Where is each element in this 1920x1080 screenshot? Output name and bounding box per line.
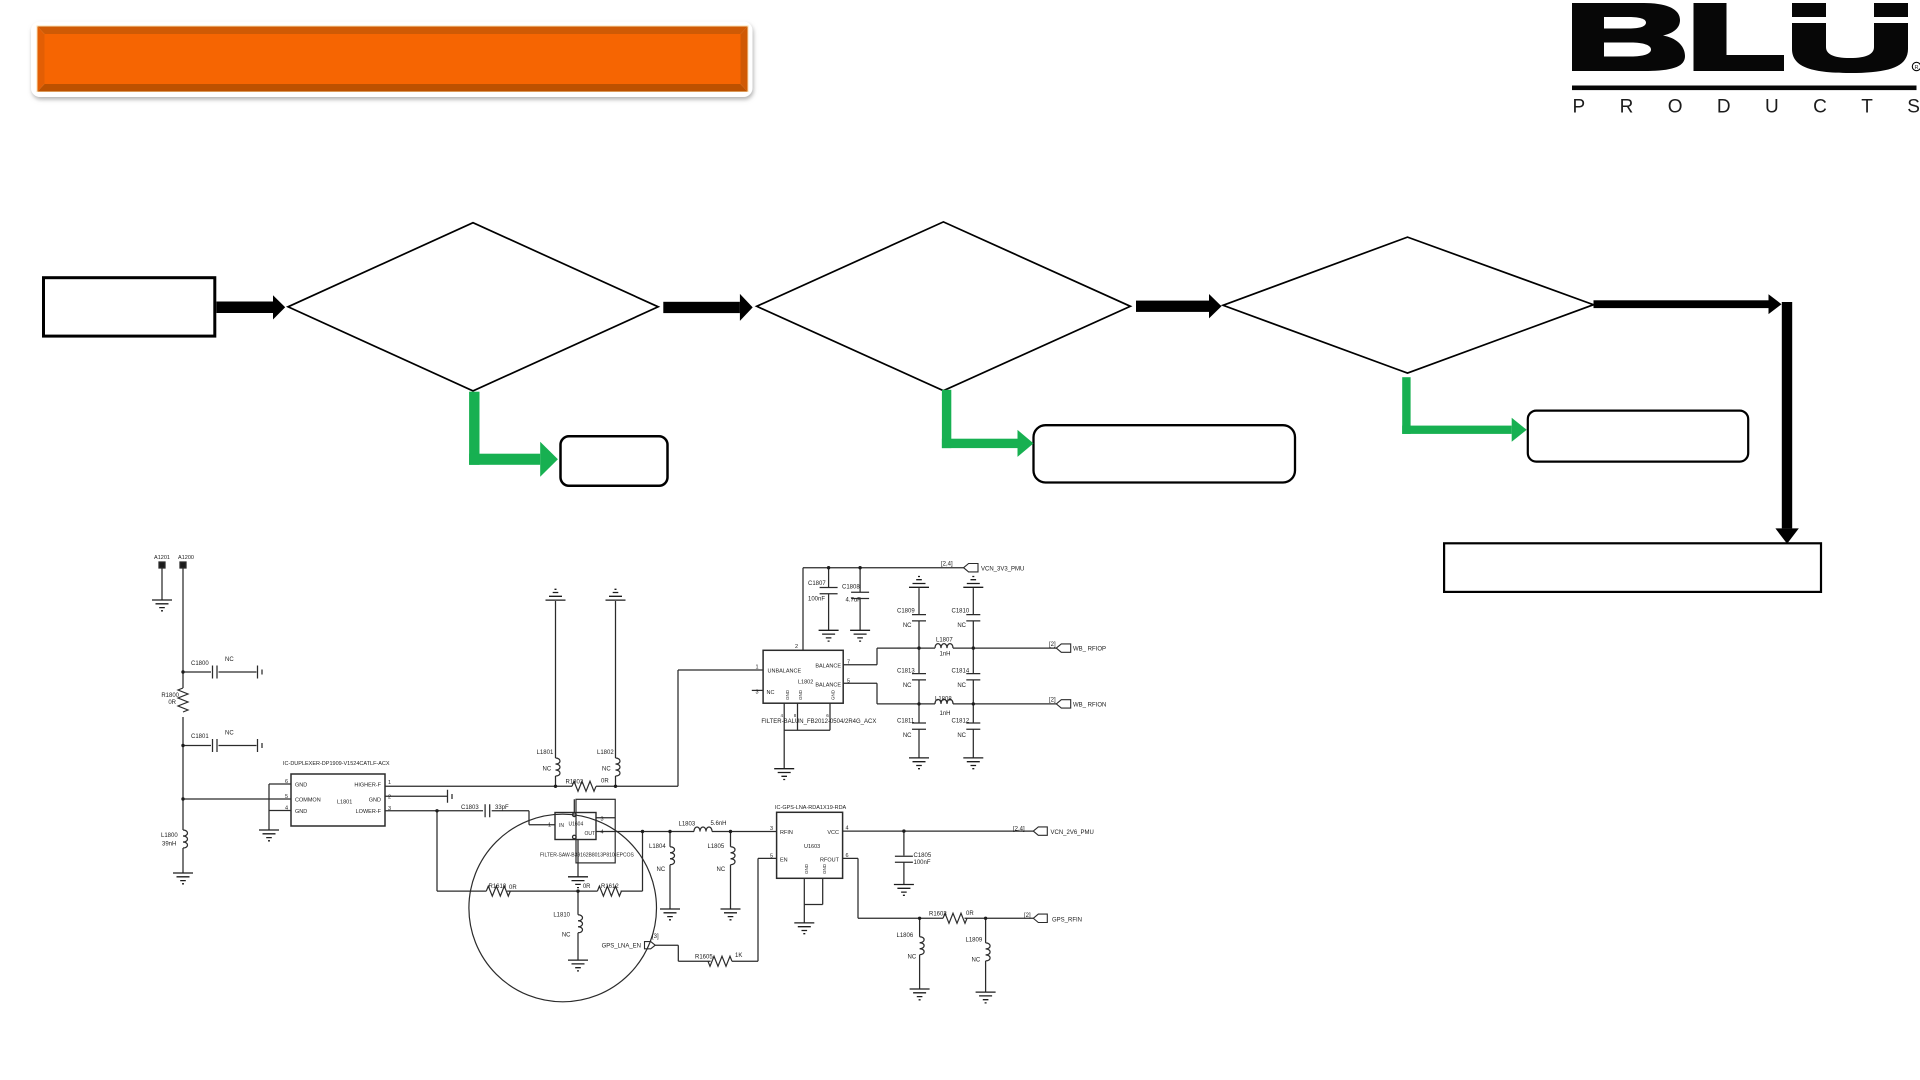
svg-text:C1803: C1803: [461, 805, 479, 811]
svg-text:VCN_3V3_PMU: VCN_3V3_PMU: [981, 567, 1024, 573]
svg-text:L1806: L1806: [897, 933, 914, 939]
svg-text:WB_ RFION: WB_ RFION: [1073, 703, 1106, 709]
svg-text:1K: 1K: [735, 953, 742, 959]
svg-text:C1800: C1800: [191, 661, 209, 667]
svg-text:33pF: 33pF: [495, 805, 509, 811]
svg-text:L1803: L1803: [679, 822, 696, 828]
svg-text:2: 2: [795, 644, 798, 650]
svg-text:5: 5: [770, 854, 773, 860]
svg-text:C1810: C1810: [952, 609, 970, 615]
svg-text:GPS_RFIN: GPS_RFIN: [1052, 918, 1082, 924]
svg-text:1nH: 1nH: [940, 711, 951, 717]
svg-text:U1604: U1604: [569, 822, 584, 828]
svg-text:0R: 0R: [601, 779, 609, 785]
svg-text:4: 4: [780, 713, 783, 718]
svg-text:100nF: 100nF: [808, 597, 825, 603]
svg-text:NC: NC: [602, 767, 611, 773]
svg-text:L1807: L1807: [936, 638, 953, 644]
svg-text:L1809: L1809: [966, 938, 983, 944]
svg-text:3: 3: [770, 826, 773, 832]
svg-text:NC: NC: [903, 733, 912, 739]
svg-text:IC-DUPLEXER-DP1909-V1524CATLF-: IC-DUPLEXER-DP1909-V1524CATLF-ACX: [283, 761, 390, 767]
svg-text:NC: NC: [903, 683, 912, 689]
svg-text:C1811: C1811: [897, 719, 915, 725]
svg-text:R: R: [1914, 65, 1918, 71]
svg-text:NC: NC: [957, 623, 966, 629]
svg-text:GPS_LNA_EN: GPS_LNA_EN: [602, 944, 641, 950]
svg-text:1: 1: [755, 665, 758, 671]
svg-text:R1800: R1800: [161, 693, 179, 699]
svg-text:6: 6: [846, 853, 849, 859]
svg-text:L1802: L1802: [798, 680, 813, 686]
svg-text:R1605: R1605: [695, 955, 713, 961]
svg-text:1: 1: [388, 780, 391, 786]
svg-text:C1812: C1812: [952, 719, 970, 725]
svg-text:GND: GND: [798, 689, 803, 700]
svg-text:7: 7: [847, 660, 850, 666]
svg-text:RFOUT: RFOUT: [820, 858, 840, 864]
svg-text:NC: NC: [767, 690, 775, 696]
svg-text:3: 3: [388, 806, 391, 812]
svg-text:5: 5: [285, 794, 288, 800]
svg-text:L1802: L1802: [597, 750, 614, 756]
svg-text:UNBALANCE: UNBALANCE: [768, 669, 802, 675]
svg-text:U1603: U1603: [804, 844, 820, 850]
svg-text:0R: 0R: [966, 911, 974, 917]
svg-text:L1801: L1801: [337, 800, 352, 806]
svg-text:3: 3: [601, 817, 604, 823]
svg-text:39nH: 39nH: [162, 842, 176, 848]
svg-text:L1810: L1810: [553, 913, 570, 919]
svg-text:NC: NC: [562, 933, 571, 939]
svg-text:1: 1: [548, 823, 551, 829]
svg-text:HIGHER-F: HIGHER-F: [354, 783, 381, 789]
svg-text:6: 6: [285, 779, 288, 785]
svg-text:GND: GND: [295, 809, 307, 815]
svg-text:GND: GND: [785, 689, 790, 700]
svg-text:IC-GPS-LNA-RDA1X19-RDA: IC-GPS-LNA-RDA1X19-RDA: [775, 805, 847, 811]
svg-text:NC: NC: [903, 623, 912, 629]
svg-text:COMMON: COMMON: [295, 798, 321, 804]
svg-text:C1809: C1809: [897, 609, 915, 615]
svg-text:8: 8: [794, 713, 797, 718]
svg-text:5.6nH: 5.6nH: [711, 821, 727, 827]
svg-text:L1801: L1801: [537, 750, 554, 756]
svg-text:NC: NC: [957, 733, 966, 739]
svg-text:WB_ RFIOP: WB_ RFIOP: [1073, 647, 1106, 653]
svg-text:OUT: OUT: [585, 831, 596, 837]
svg-text:1nH: 1nH: [940, 652, 951, 658]
svg-text:GND: GND: [822, 863, 827, 874]
svg-text:L1805: L1805: [708, 844, 725, 850]
svg-text:R1802: R1802: [566, 780, 584, 786]
svg-text:NC: NC: [717, 867, 726, 873]
svg-text:4: 4: [846, 826, 849, 832]
svg-text:3: 3: [755, 690, 758, 696]
svg-text:C1808: C1808: [842, 585, 860, 591]
svg-text:NC: NC: [972, 958, 981, 964]
svg-text:IN: IN: [559, 823, 564, 829]
svg-text:NC: NC: [657, 867, 666, 873]
svg-text:C1807: C1807: [808, 581, 826, 587]
svg-text:GND: GND: [804, 863, 809, 874]
svg-text:L1804: L1804: [649, 844, 666, 850]
svg-text:NC: NC: [543, 767, 552, 773]
svg-text:[2]: [2]: [1049, 698, 1056, 704]
svg-text:L1808: L1808: [935, 697, 952, 703]
svg-text:[2,4]: [2,4]: [1013, 827, 1025, 833]
svg-text:GND: GND: [295, 783, 307, 789]
svg-text:NC: NC: [225, 731, 234, 737]
svg-text:A1201: A1201: [154, 555, 170, 561]
svg-text:C1814: C1814: [952, 669, 970, 675]
svg-text:R1603: R1603: [929, 912, 947, 918]
svg-text:4: 4: [285, 806, 288, 812]
svg-text:[3]: [3]: [652, 934, 659, 940]
svg-text:GND: GND: [831, 689, 836, 700]
svg-text:0R: 0R: [583, 884, 591, 890]
svg-text:BALANCE: BALANCE: [815, 664, 841, 670]
svg-text:NC: NC: [225, 657, 234, 663]
svg-text:5: 5: [847, 679, 850, 685]
svg-text:[2,4]: [2,4]: [941, 562, 953, 568]
svg-text:LOWER-F: LOWER-F: [356, 809, 382, 815]
svg-text:NC: NC: [908, 955, 917, 961]
svg-text:4.7uF: 4.7uF: [846, 598, 862, 604]
svg-text:FILTER-SAW-B39162B8013P810-EPC: FILTER-SAW-B39162B8013P810-EPCOS: [540, 853, 635, 859]
svg-text:VCN_2V6_PMU: VCN_2V6_PMU: [1051, 830, 1094, 836]
svg-text:R1610: R1610: [489, 884, 507, 890]
svg-text:RFIN: RFIN: [780, 830, 793, 836]
svg-text:0R: 0R: [509, 885, 517, 891]
svg-text:6: 6: [826, 713, 829, 718]
svg-text:0R: 0R: [168, 700, 176, 706]
svg-text:VCC: VCC: [827, 830, 839, 836]
svg-text:NC: NC: [957, 683, 966, 689]
svg-text:A1200: A1200: [178, 555, 194, 561]
svg-text:[2]: [2]: [1024, 913, 1031, 919]
svg-text:L1800: L1800: [161, 833, 178, 839]
svg-text:R1612: R1612: [601, 884, 619, 890]
svg-text:C1801: C1801: [191, 734, 209, 740]
svg-text:GND: GND: [369, 798, 381, 804]
svg-text:100nF: 100nF: [914, 860, 931, 866]
svg-text:FILTER-BALUN_FB2012-0504/2R4G_: FILTER-BALUN_FB2012-0504/2R4G_ACX: [761, 719, 876, 725]
svg-text:C1805: C1805: [914, 853, 932, 859]
svg-text:2: 2: [388, 795, 391, 801]
svg-text:[2]: [2]: [1049, 642, 1056, 648]
svg-text:C1813: C1813: [897, 669, 915, 675]
svg-text:BALANCE: BALANCE: [815, 683, 841, 689]
svg-text:4: 4: [601, 830, 604, 836]
svg-text:EN: EN: [780, 858, 788, 864]
svg-text:PRODUCTS: PRODUCTS: [1573, 97, 1920, 118]
